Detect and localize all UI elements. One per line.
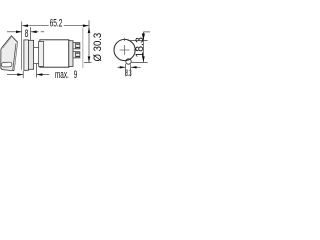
dimension 8 left outside arrow xyxy=(7,31,22,33)
ring nut xyxy=(28,40,33,69)
dimension 8 right outside arrow xyxy=(31,31,39,33)
right quadrant tick xyxy=(134,49,137,51)
terminal T2 xyxy=(73,52,80,58)
dimension 8 leader dash xyxy=(41,31,44,33)
terminal T1 xyxy=(73,43,80,49)
8.3 right outside arrow xyxy=(131,66,141,68)
max 9 tick left xyxy=(22,71,24,78)
center cross horizontal xyxy=(120,49,130,51)
8.3 left outside arrow xyxy=(118,66,126,68)
terminal plane extension line xyxy=(82,28,84,69)
18.3 top outside arrow xyxy=(142,34,145,41)
end view circle xyxy=(114,39,135,60)
max 9 left outside arrow xyxy=(7,74,23,76)
max 9 right outside arrow xyxy=(37,74,50,76)
18.3 top extension line xyxy=(130,40,148,42)
cylinder body xyxy=(40,40,69,67)
top quadrant tick xyxy=(124,38,126,41)
18.3 dimension stem xyxy=(142,32,144,62)
lever top inner edge xyxy=(3,37,11,48)
lever slot xyxy=(1,62,12,67)
dimension 8 right extension line xyxy=(30,27,32,40)
dimension 65.2 label xyxy=(50,17,63,29)
18.3 bottom extension line xyxy=(132,62,148,64)
svg-text:Ø 30.3: Ø 30.3 xyxy=(93,33,105,62)
bezel plate xyxy=(24,40,29,70)
shaft top line xyxy=(34,47,40,49)
max 9 tick right xyxy=(35,64,37,78)
8.3 left extension line xyxy=(125,64,127,77)
svg-text:9: 9 xyxy=(74,68,78,80)
8.3 right extension line xyxy=(130,64,132,76)
svg-text:8: 8 xyxy=(25,28,29,40)
small lug circle xyxy=(126,59,131,64)
shaft bottom line xyxy=(34,62,40,64)
svg-text:18.3: 18.3 xyxy=(134,37,146,57)
dimension 65.2 line xyxy=(22,25,89,27)
cylinder front rim xyxy=(39,41,44,66)
lever bevel face xyxy=(13,42,18,70)
18.3 label xyxy=(134,37,146,57)
diameter 30.3 up arrow xyxy=(88,27,91,33)
18.3 top leader xyxy=(143,31,150,33)
svg-text:max.: max. xyxy=(55,68,69,80)
svg-text:8.3: 8.3 xyxy=(126,70,132,79)
max 9 label xyxy=(55,68,69,80)
diameter 30.3 dimension line xyxy=(88,20,90,62)
diameter 30.3 label xyxy=(93,33,105,62)
svg-text:65.2: 65.2 xyxy=(50,17,63,29)
back plate xyxy=(69,41,73,67)
center cross vertical xyxy=(124,45,126,55)
diameter 30.3 bottom extension xyxy=(84,62,92,64)
lever bevel line xyxy=(13,44,16,70)
dimension 8 label xyxy=(25,28,29,40)
18.3 bottom arrow xyxy=(142,56,145,62)
lever knob xyxy=(1,36,18,71)
diameter 30.3 down arrow xyxy=(88,56,91,62)
8.3 label xyxy=(126,70,132,79)
left extension line xyxy=(21,22,23,70)
dimension 65.2 arrowheads xyxy=(22,24,89,27)
